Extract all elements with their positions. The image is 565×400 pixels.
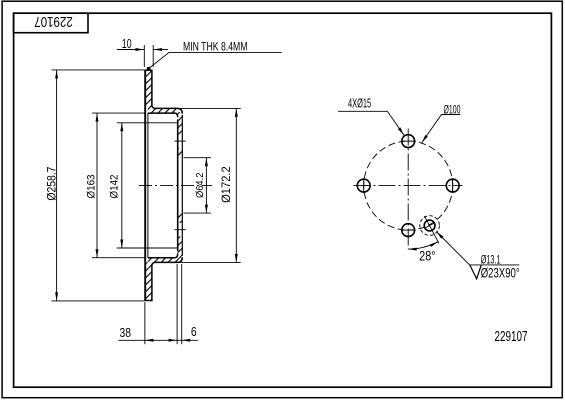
tick top hole <box>401 140 416 142</box>
arrow 10 left <box>135 48 144 51</box>
bolt hole top <box>402 135 415 148</box>
leader dot MIN THK <box>147 67 151 71</box>
pin hole 28deg <box>424 220 435 231</box>
web bottom edge + outer fillet <box>154 257 183 262</box>
svg-text:6: 6 <box>191 324 197 339</box>
tick right hole <box>452 178 454 193</box>
svg-text:10: 10 <box>122 36 132 51</box>
disc outer left face (thick) <box>144 70 146 301</box>
hatched cut region: face lower segment <box>178 237 183 256</box>
disc right face bottom segment <box>152 262 154 301</box>
hatched cut region: bottom web + fillet <box>148 251 182 262</box>
svg-text:Ø163: Ø163 <box>86 175 98 199</box>
arrow 142 bottom <box>120 240 123 249</box>
countersink V symbol <box>470 265 482 279</box>
arrow 013.1 <box>436 232 443 239</box>
vertical centerline <box>407 129 409 250</box>
arrow 6 right <box>182 339 191 342</box>
tick left hole <box>363 178 365 193</box>
arrow 64.2 bottom <box>205 205 208 214</box>
svg-text:MIN THK 8.4MM: MIN THK 8.4MM <box>183 39 248 53</box>
svg-text:229107: 229107 <box>34 13 73 29</box>
disc right face top segment <box>152 70 154 109</box>
dim 38 line <box>118 339 197 341</box>
web bottom top edge + inner fillet <box>148 254 178 258</box>
arrow 258.7 top <box>55 70 58 79</box>
dia258.7 extension bottom <box>52 300 145 302</box>
hatched cut region: bottom disc band <box>145 258 154 301</box>
bolt hole tick top <box>175 140 186 142</box>
angular dim arc 28 <box>408 242 438 249</box>
horizontal centerline <box>354 185 463 187</box>
disc top edge <box>144 69 152 71</box>
dia258.7 extension top <box>52 69 145 71</box>
bolt hole bottom <box>402 224 415 237</box>
arrow 142 top <box>120 123 123 132</box>
arc arrow left <box>408 248 417 251</box>
dim 6 extension right <box>181 264 183 344</box>
bolt circle dashed <box>364 141 453 230</box>
dia142 extension/silhouette top <box>117 122 178 124</box>
arc arrow right <box>430 242 438 247</box>
countersink dashed circle <box>420 216 440 236</box>
dim 10 line left <box>117 49 144 51</box>
hat face right surface <box>181 115 183 256</box>
arrow 0100 <box>422 135 428 143</box>
leader 0100 <box>422 115 461 143</box>
svg-text:28°: 28° <box>419 248 436 264</box>
dia163 dim line <box>96 113 98 258</box>
svg-text:Ø142: Ø142 <box>109 175 121 199</box>
hatched cut region: face between holes <box>178 148 183 158</box>
dim 38/6 extension mid <box>176 264 178 344</box>
dia163 extension bottom <box>92 257 145 259</box>
svg-text:Ø64.2: Ø64.2 <box>195 172 206 198</box>
web top bottom edge + inner fillet <box>148 113 178 117</box>
dia64.2 dim line <box>205 158 207 213</box>
arrow 163 bottom <box>96 249 99 258</box>
arrows section <box>55 48 238 342</box>
dim 38 extension left <box>144 302 146 344</box>
section centerline <box>139 184 212 186</box>
dia142 extension/silhouette bottom <box>117 247 178 249</box>
dia172.2 dim line <box>235 108 237 262</box>
arrow 163 top <box>96 113 99 122</box>
bolt hole tick bottom <box>175 229 186 231</box>
dia172.2 extension bottom <box>177 261 241 263</box>
arrow 4X015 <box>398 127 404 135</box>
hatched cut region: top disc band <box>145 70 154 113</box>
svg-text:Ø100: Ø100 <box>444 102 461 116</box>
hatched cut region: face upper segment <box>178 115 183 135</box>
dia64.2 extension top <box>184 157 212 159</box>
dia258.7 dim line <box>56 70 58 301</box>
arrow 64.2 top <box>205 158 208 167</box>
dim 10 line right <box>154 49 169 51</box>
dia142 dim line <box>121 123 123 248</box>
leader 013.1 <box>436 232 519 265</box>
arrow 38 left <box>145 339 154 342</box>
svg-text:229107: 229107 <box>495 329 528 345</box>
hatched cut region: top web + fillet <box>148 108 182 119</box>
bolt hole left <box>357 179 370 192</box>
svg-text:4XØ15: 4XØ15 <box>348 96 371 110</box>
dia64.2 extension bottom <box>184 212 212 214</box>
hatched cut region: face below center hole <box>178 213 183 223</box>
dia163 extension top <box>92 112 145 114</box>
dim 10 extension lines <box>143 45 145 67</box>
hat face left surface <box>177 120 179 252</box>
arrow 38 right <box>169 339 178 342</box>
arrow 10 right <box>154 48 163 51</box>
arrow 258.7 bottom <box>55 292 58 301</box>
web inner silhouette line <box>147 113 149 258</box>
perpendicular tick pin hole <box>426 223 434 227</box>
title box top-left <box>14 13 88 33</box>
arrow 172.2 top <box>235 108 238 117</box>
svg-text:Ø172.2: Ø172.2 <box>220 166 233 203</box>
leader 4X015 <box>338 111 404 135</box>
disc bottom edge <box>144 300 152 302</box>
svg-text:38: 38 <box>120 325 132 340</box>
bolt hole right <box>446 179 459 192</box>
min thk leader <box>149 52 282 68</box>
web top edge + outer fillet <box>154 108 183 113</box>
svg-text:Ø23X90°: Ø23X90° <box>481 265 520 281</box>
svg-text:Ø258.7: Ø258.7 <box>46 167 59 201</box>
arrow 172.2 bottom <box>235 254 238 263</box>
tick bottom hole <box>401 229 416 231</box>
dia172.2 extension top <box>177 107 241 109</box>
radial line through pin hole <box>424 216 439 244</box>
